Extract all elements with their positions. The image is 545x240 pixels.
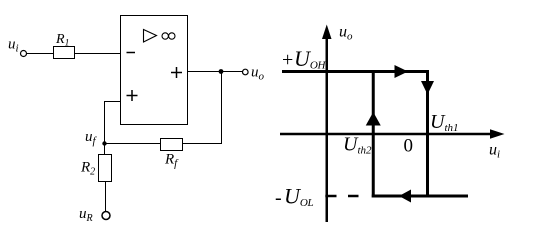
arrow down on U_th1 segment bbox=[421, 81, 434, 95]
wire input to R1 bbox=[27, 53, 54, 55]
op-amp gain triangle bbox=[144, 30, 157, 43]
input terminal u_i bbox=[21, 51, 27, 57]
resistor R2 bbox=[99, 155, 112, 182]
wire node u_f up to plus input bbox=[105, 102, 121, 144]
arrow up on U_th2 segment bbox=[366, 112, 381, 126]
wire R2 to terminal u_R bbox=[105, 182, 107, 212]
arrow right on top line bbox=[395, 65, 409, 78]
node u_f bbox=[102, 141, 106, 145]
node output junction bbox=[219, 69, 224, 74]
op-amp U1 body bbox=[121, 16, 188, 125]
resistor Rf bbox=[161, 139, 183, 151]
resistor R1 bbox=[54, 47, 75, 59]
op-amp output plus mark bbox=[171, 72, 182, 74]
tick at -U_OL on axis bbox=[325, 195, 336, 198]
wire Rf to node u_f bbox=[105, 143, 161, 145]
op-amp inverting input minus bbox=[127, 52, 136, 54]
hysteresis bottom line at -U_OL bbox=[372, 195, 468, 198]
svg-text:+: + bbox=[282, 49, 293, 71]
wire op-amp output bbox=[188, 71, 243, 73]
axis u_i horizontal bbox=[280, 133, 492, 136]
segment U_th2 vertical bbox=[372, 70, 375, 198]
op-amp infinity symbol bbox=[162, 33, 168, 39]
output terminal u_o bbox=[243, 69, 249, 75]
svg-text:0: 0 bbox=[404, 136, 414, 157]
terminal u_R bbox=[102, 212, 110, 220]
wire R1 to op-amp bbox=[75, 53, 121, 55]
op-amp non-inverting input plus bbox=[127, 95, 138, 97]
wire feedback from junction down and left to Rf bbox=[183, 72, 222, 144]
svg-text:-: - bbox=[275, 187, 282, 209]
arrow left on bottom line bbox=[399, 190, 411, 203]
wire node u_f down to R2 bbox=[104, 144, 106, 155]
dash of -U_OL level bbox=[348, 195, 359, 198]
segment U_th1 vertical bbox=[426, 70, 429, 197]
hysteresis top line at +U_OH bbox=[282, 70, 429, 73]
axis u_o vertical bbox=[326, 36, 329, 222]
